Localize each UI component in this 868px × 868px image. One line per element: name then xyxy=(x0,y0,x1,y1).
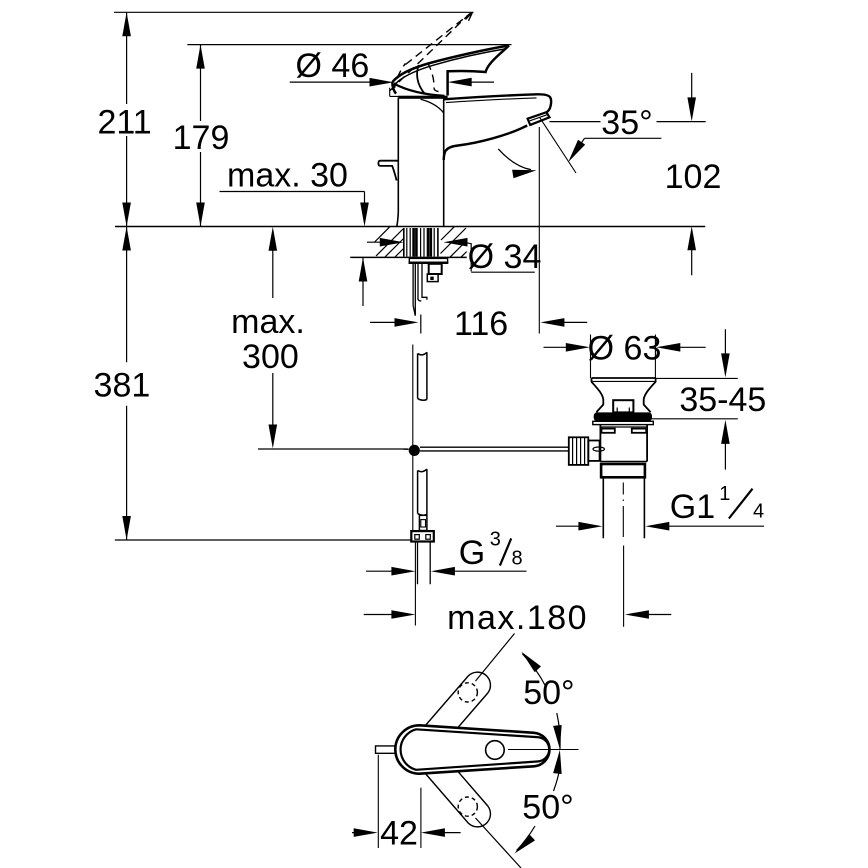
svg-text:179: 179 xyxy=(173,119,230,157)
svg-text:300: 300 xyxy=(242,338,299,376)
svg-text:Ø 46: Ø 46 xyxy=(296,47,370,85)
svg-text:8: 8 xyxy=(512,548,523,570)
svg-text:211: 211 xyxy=(97,104,151,142)
svg-text:42: 42 xyxy=(380,815,418,853)
svg-text:35°: 35° xyxy=(601,104,652,142)
svg-text:35-45: 35-45 xyxy=(679,381,766,419)
svg-text:Ø 63: Ø 63 xyxy=(588,330,662,368)
svg-text:max.180: max.180 xyxy=(447,599,588,637)
svg-text:50°: 50° xyxy=(523,674,574,712)
svg-text:max. 30: max. 30 xyxy=(227,157,348,195)
svg-text:3: 3 xyxy=(490,528,501,550)
svg-text:116: 116 xyxy=(454,305,508,343)
svg-text:381: 381 xyxy=(94,367,151,405)
svg-text:G: G xyxy=(459,534,485,572)
svg-text:102: 102 xyxy=(665,158,722,196)
svg-text:4: 4 xyxy=(753,501,764,523)
svg-text:1: 1 xyxy=(719,483,730,505)
svg-text:max.: max. xyxy=(231,303,305,341)
svg-text:G1: G1 xyxy=(670,488,715,526)
svg-text:Ø 34: Ø 34 xyxy=(468,238,542,276)
svg-text:50°: 50° xyxy=(522,789,573,827)
